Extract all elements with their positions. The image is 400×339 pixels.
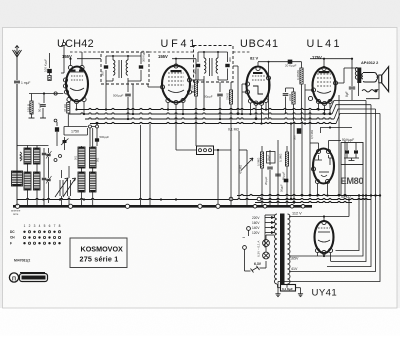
grid bracket UCH42 xyxy=(63,46,65,74)
svg-text:50μμF: 50μμF xyxy=(280,184,284,192)
wire 175V rail xyxy=(310,58,352,60)
wire drop cluster x310 xyxy=(309,110,311,196)
pin 5 UL41 right xyxy=(333,81,337,85)
capacitor bank b xyxy=(42,177,46,179)
pin UY41 top xyxy=(322,220,326,224)
svg-text:4: 4 xyxy=(39,224,41,228)
coil L7 xyxy=(78,172,85,192)
wire vol box left xyxy=(175,146,177,150)
wire tap rail xyxy=(264,218,266,233)
capacitor 500mmF osc xyxy=(95,138,99,141)
wire drop x339 xyxy=(338,95,340,196)
pin UL41 bottom a xyxy=(316,99,320,103)
dial lamp LP1 xyxy=(263,240,270,247)
pin 6 UF41 top xyxy=(174,64,178,68)
capacitor osc pad xyxy=(56,122,58,126)
pin EM80 top b xyxy=(326,149,330,153)
svg-text:82 V: 82 V xyxy=(250,56,259,61)
svg-text:AP4012 2: AP4012 2 xyxy=(361,60,379,65)
capacitor 2KuF box xyxy=(267,152,276,164)
wire UF41 grid left xyxy=(148,86,160,88)
wire lamp chain top xyxy=(265,235,267,240)
pin 6 UBC41 top xyxy=(256,66,260,70)
wire osc link xyxy=(92,126,96,128)
pin 7 UCH42 bottom left xyxy=(67,97,71,101)
svg-text:0,5MΩ: 0,5MΩ xyxy=(257,158,261,166)
wire UCH42 cathode down xyxy=(76,104,78,110)
pin UBC41 bottom a xyxy=(248,99,252,103)
coil L4 xyxy=(34,172,41,190)
node switch S1 xyxy=(54,92,57,95)
pin UBC41 bottom c xyxy=(259,101,263,105)
coil T2 primary xyxy=(204,58,206,73)
wire UF41 anode xyxy=(175,60,177,64)
svg-text:8: 8 xyxy=(59,224,61,228)
wire L corner mid xyxy=(321,128,353,134)
resistor 0.5Mohm vert xyxy=(261,146,263,152)
svg-text:0,5 MΩ: 0,5 MΩ xyxy=(310,130,314,139)
capacitor 100KmmF grid xyxy=(49,53,51,68)
svg-text:EM80: EM80 xyxy=(341,176,364,186)
switch S mains xyxy=(252,267,258,271)
svg-text:1 mμF: 1 mμF xyxy=(21,81,30,85)
mains plug P1 xyxy=(247,227,251,231)
wire 155V to IF1 xyxy=(77,58,101,60)
svg-text:6: 6 xyxy=(49,224,51,228)
wire volume feed xyxy=(176,146,196,150)
junction dots buses xyxy=(75,108,77,110)
coil L2 xyxy=(34,148,41,164)
node terminal bus d xyxy=(198,204,202,208)
wire drop x140 xyxy=(140,52,142,56)
bus B5 short xyxy=(63,126,65,128)
pin EM80 left xyxy=(311,167,315,171)
svg-text:275 série 1: 275 série 1 xyxy=(80,255,119,264)
coil L3 xyxy=(24,172,31,190)
wire antenna lead lower xyxy=(16,84,18,150)
node terminal bus f xyxy=(253,205,257,209)
svg-text:KOSMOVOX: KOSMOVOX xyxy=(81,245,124,254)
wire OT secondary to speaker xyxy=(377,76,380,78)
svg-text:F: F xyxy=(10,241,12,245)
svg-text:140V: 140V xyxy=(252,226,260,230)
capacitor 2KmmF xyxy=(269,150,271,165)
capacitor box EM80 xyxy=(341,143,363,165)
capacitor 1mmF antenna series xyxy=(14,80,20,82)
wire nest v3 xyxy=(331,101,366,262)
capacitor T1 primary xyxy=(105,56,107,64)
resistor 22Kohm det xyxy=(230,82,232,90)
wire antenna to coils xyxy=(16,84,18,206)
variable capacitor CV2 xyxy=(67,180,69,196)
wire coil tops xyxy=(17,145,49,147)
wire nest v4 xyxy=(327,105,371,267)
svg-text:160V: 160V xyxy=(252,221,260,225)
pin 6 UCH42 top right xyxy=(80,65,84,69)
svg-text:0,1 MΩ: 0,1 MΩ xyxy=(228,128,239,132)
resistor 0.47Mohm xyxy=(301,62,303,68)
wire coil bottoms to bus xyxy=(27,190,29,206)
capacitor 0.1KuF mains xyxy=(281,285,296,292)
svg-text:112 V: 112 V xyxy=(292,212,302,216)
capacitor 50mmF tone xyxy=(284,179,289,183)
svg-text:47 kΩ: 47 kΩ xyxy=(63,103,67,112)
svg-text:20 KμμF: 20 KμμF xyxy=(285,64,297,68)
coil L1 xyxy=(24,148,31,164)
bus B2 xyxy=(69,113,332,114)
svg-text:100 KμμF: 100 KμμF xyxy=(44,59,48,72)
pin UY41 bottom c xyxy=(328,248,332,252)
wire L7L8 to bus xyxy=(81,192,83,206)
pin UY41 bottom a xyxy=(315,248,319,252)
wire antenna lead xyxy=(16,56,18,80)
wire af node xyxy=(286,87,294,89)
tube EM80 xyxy=(313,149,334,184)
svg-text:175V: 175V xyxy=(312,55,322,60)
wire UBC41 pin5 up xyxy=(268,62,270,76)
pin 8 UF41 right b xyxy=(187,90,191,94)
svg-text:300: 300 xyxy=(228,57,232,62)
speaker LS1 xyxy=(379,75,382,83)
wire nest v6 outer xyxy=(278,114,380,282)
wire nest v2 xyxy=(289,196,363,257)
svg-text:6,3V: 6,3V xyxy=(254,262,262,266)
svg-text:50 μμF: 50 μμF xyxy=(38,102,42,112)
pin UL41 bottom c xyxy=(328,99,332,103)
node terminal bus c xyxy=(125,204,129,208)
resistor 1Mohm screen xyxy=(195,59,197,80)
wire drop cluster x302 xyxy=(301,121,303,196)
svg-text:6,3V – 0,1 A: 6,3V – 0,1 A xyxy=(257,241,261,257)
svg-text:M/47081(2: M/47081(2 xyxy=(14,259,30,263)
resistor 150 ohm xyxy=(31,94,33,102)
wire drop cluster x291 xyxy=(290,124,292,199)
tube UBC41 xyxy=(247,67,270,104)
logo roundel xyxy=(9,273,18,282)
capacitor T2 secondary xyxy=(227,52,229,62)
svg-text:~: ~ xyxy=(242,236,245,242)
bus B1 heater/avc xyxy=(77,108,330,109)
wire UL41 anode to OT xyxy=(336,82,345,84)
svg-text:UBC41: UBC41 xyxy=(240,38,279,50)
wire vol box right xyxy=(214,149,232,151)
wire speaker return xyxy=(366,83,379,99)
ant coil bracket xyxy=(20,152,22,161)
wire UL41 bottoms xyxy=(318,104,320,110)
svg-text:588: 588 xyxy=(20,181,24,186)
wire drop x247 xyxy=(246,150,248,206)
wire primary top to taps xyxy=(265,214,275,216)
power transformer TR1 secondary xyxy=(288,214,291,284)
power transformer TR1 core xyxy=(280,214,285,286)
wire nest v5 xyxy=(289,109,376,272)
svg-text:3: 3 xyxy=(34,224,36,228)
node terminal bus a xyxy=(15,204,19,208)
wire mains leads xyxy=(250,228,265,230)
svg-text:165V: 165V xyxy=(290,257,299,261)
output transformer OT primary xyxy=(357,68,361,84)
wire UBC41 anode up xyxy=(257,62,259,66)
volume control box xyxy=(197,146,214,155)
pin EM80 bottom b xyxy=(325,179,329,183)
svg-text:1: 1 xyxy=(24,224,26,228)
trimmer bank a xyxy=(48,148,50,153)
node terminal bus i xyxy=(301,205,305,209)
wire UBC41 bottoms xyxy=(250,103,252,114)
svg-text:500μμF: 500μμF xyxy=(100,135,110,139)
pin 4 UCH42 left c xyxy=(64,90,68,94)
capacitor coupling af xyxy=(285,88,287,92)
wire drop cluster x294 xyxy=(293,121,295,203)
wire switch to lamp chain xyxy=(244,254,246,271)
rail R1 xyxy=(237,194,380,195)
wire T2 top tie xyxy=(198,51,228,53)
tube UF41 xyxy=(162,66,190,103)
svg-text:150 Ω: 150 Ω xyxy=(27,103,31,112)
EM80 internals xyxy=(315,155,322,160)
tube UCH42 xyxy=(66,67,88,102)
wire gang to bus xyxy=(61,196,63,206)
node terminal bus b xyxy=(68,204,72,208)
pin 2 UCH42 top left xyxy=(68,65,72,69)
switch contact b xyxy=(59,155,62,158)
ground bus main xyxy=(13,205,312,208)
capacitor T2 primary xyxy=(197,52,199,62)
wire nest v1 xyxy=(336,196,360,251)
wire drop x278 xyxy=(277,140,279,206)
pin UL41 left low xyxy=(308,96,312,100)
wire drop x345 xyxy=(344,141,346,196)
pin 5 UBC41 right xyxy=(266,76,270,80)
svg-text:UY41: UY41 xyxy=(312,288,338,299)
node terminal bus h xyxy=(290,205,294,209)
padder box antenna xyxy=(12,171,23,186)
core T2 xyxy=(209,58,211,76)
svg-text:300: 300 xyxy=(101,71,105,76)
coil L6 xyxy=(90,147,97,168)
power transformer TR1 primary xyxy=(275,214,278,284)
svg-text:500μμF: 500μμF xyxy=(113,94,123,98)
capacitor bank a xyxy=(42,152,46,154)
coil T1 secondary xyxy=(126,60,128,75)
svg-text:2KμμF: 2KμμF xyxy=(264,176,268,185)
svg-text:300: 300 xyxy=(293,135,297,140)
coil 300KmmF blob xyxy=(297,128,301,134)
svg-text:50μμF: 50μμF xyxy=(204,95,213,99)
node terminal bus e xyxy=(216,204,220,208)
ground G1 xyxy=(277,292,279,294)
capacitor 20KmmF xyxy=(288,60,293,64)
svg-text:22KΩ: 22KΩ xyxy=(226,93,230,100)
wire drop x239 xyxy=(238,131,240,199)
wire HT secondary to UY41 xyxy=(289,216,349,218)
pin 2 UBC41 left b xyxy=(245,90,249,94)
wire L5L6 tops xyxy=(81,146,83,147)
pin EM80 top a xyxy=(316,149,320,153)
svg-text:terre: terre xyxy=(13,212,19,216)
pin 8 UCH42 bottom mid xyxy=(74,99,78,103)
wire UF41 bottoms xyxy=(167,103,169,110)
trimmer bank b xyxy=(48,172,50,178)
wire 82V line xyxy=(258,61,302,63)
bus B3 xyxy=(85,118,334,119)
tube UL41 xyxy=(313,68,336,104)
svg-text:Π: Π xyxy=(12,276,16,282)
coil L5 xyxy=(78,147,85,168)
wire cap to grounds xyxy=(277,282,279,293)
svg-text:1 MΩ: 1 MΩ xyxy=(191,84,195,92)
pin UBC41 bottom b xyxy=(254,101,258,105)
potentiometer wiper arrow xyxy=(241,158,253,171)
output transformer OT secondary loop xyxy=(365,73,377,76)
wire UL41 grid xyxy=(305,89,311,91)
wire T1 secondary down xyxy=(132,84,134,114)
svg-text:DC: DC xyxy=(10,230,15,234)
capacitor 50mmF agc xyxy=(43,94,45,104)
node pot terminal a xyxy=(229,197,233,201)
wire osc down a xyxy=(89,128,91,146)
node pot terminal b xyxy=(257,197,261,201)
pin 1 UBC41 left a xyxy=(245,82,249,86)
coil L8 xyxy=(90,172,97,192)
svg-text:155V: 155V xyxy=(158,54,168,59)
svg-text:22KΩ: 22KΩ xyxy=(288,94,292,101)
svg-text:501: 501 xyxy=(74,155,78,160)
svg-text:50 KμμF: 50 KμμF xyxy=(342,138,354,142)
pin 5 UF41 right a xyxy=(187,78,191,82)
title box KOSMOVOX 275 xyxy=(70,238,127,268)
pin 3 UL41 left xyxy=(311,88,315,92)
capacitor T1 secondary xyxy=(140,56,142,64)
node osc a xyxy=(89,125,92,128)
svg-text:0,1 KμF: 0,1 KμF xyxy=(282,287,293,291)
node grid top terminal xyxy=(62,42,65,45)
wire T2 bottom tie xyxy=(198,79,204,81)
wire UY41 anode xyxy=(323,217,325,221)
coil T1 primary xyxy=(113,60,115,75)
wire lamp chain bottom xyxy=(265,259,267,261)
resistor 47k ohm xyxy=(68,101,70,104)
pin 2 UL41 top xyxy=(322,66,326,70)
pin 1 UF41 left xyxy=(160,85,164,89)
pin 4 UF41 bottom c xyxy=(181,98,185,102)
svg-text:41V: 41V xyxy=(291,267,298,271)
wire UY41 cathode down xyxy=(323,255,325,256)
wire 155V UF41 feed xyxy=(172,58,196,60)
pin 7 UF41 bottom b xyxy=(174,100,178,104)
wire UCH42 grid top xyxy=(70,59,72,66)
rail R3 xyxy=(255,201,352,202)
shield rail dashed xyxy=(70,51,101,53)
core T1 xyxy=(118,60,120,78)
wire EM80 bottoms xyxy=(317,184,319,196)
coil T2 secondary xyxy=(216,58,218,73)
wire T1 primary down xyxy=(105,81,107,110)
switch contact a xyxy=(54,159,57,162)
wire UCH42 grid left xyxy=(29,93,63,95)
wire OT primary down xyxy=(358,83,360,96)
svg-text:5KμμF: 5KμμF xyxy=(282,171,286,180)
wire osc down b xyxy=(96,128,98,146)
dial lamp LP2 xyxy=(263,252,270,259)
wire UBC41 left leads xyxy=(242,83,245,85)
wire drop x150 xyxy=(149,124,151,206)
svg-text:8μF: 8μF xyxy=(345,91,349,97)
wire UY41 fil leads xyxy=(317,253,319,256)
IF transformer T2 shield box xyxy=(194,46,234,83)
svg-text:5: 5 xyxy=(44,224,46,228)
capacitor 8uF cathode xyxy=(351,59,353,86)
svg-text:1750: 1750 xyxy=(71,130,79,134)
svg-text:220V: 220V xyxy=(252,216,260,220)
pin UY41 bottom b xyxy=(322,250,326,254)
pin 5 UCH42 bottom right xyxy=(82,97,86,101)
logo band xyxy=(20,274,48,282)
svg-text:588: 588 xyxy=(20,155,24,160)
pin 1 UCH42 left a xyxy=(63,78,67,82)
svg-text:antenne: antenne xyxy=(11,209,21,213)
pin UL41 bottom b xyxy=(322,101,326,105)
pin UBC41 bottom d xyxy=(264,98,268,102)
wire EM80 box sides down xyxy=(340,165,342,196)
antenna A1 xyxy=(16,46,18,56)
ground G2 xyxy=(300,292,302,294)
wire transformer bottom xyxy=(277,284,279,288)
node osc b xyxy=(96,125,99,128)
svg-text:300 KμμF: 300 KμμF xyxy=(142,50,146,62)
svg-text:2: 2 xyxy=(29,224,31,228)
wire T1 top tie xyxy=(106,55,141,57)
trimmer osc xyxy=(64,137,66,140)
wire UL41 anode up xyxy=(323,59,325,67)
svg-text:0,1MΩ: 0,1MΩ xyxy=(279,154,283,162)
svg-text:UL41: UL41 xyxy=(307,38,342,50)
svg-text:501: 501 xyxy=(96,157,100,162)
svg-text:300: 300 xyxy=(193,69,197,74)
pin 2 UF41 bottom a xyxy=(166,98,170,102)
variable capacitor CV1 xyxy=(59,180,61,196)
svg-text:7: 7 xyxy=(54,224,56,228)
voice coil lead squiggle xyxy=(362,90,377,92)
wire T1 bottom tie xyxy=(106,80,113,82)
pin 3 UCH42 left b xyxy=(63,84,67,88)
svg-text:0,47MΩ: 0,47MΩ xyxy=(296,70,300,80)
tube UY41 xyxy=(315,221,334,253)
resistor drop x287 xyxy=(286,146,288,152)
svg-text:UF41: UF41 xyxy=(161,38,199,50)
wire UF41 right pins xyxy=(192,79,196,81)
wire EM80 top feeds xyxy=(318,143,320,149)
wire coil bottoms row1 xyxy=(27,164,29,172)
bus B4 xyxy=(90,122,336,123)
wire T2 primary down xyxy=(203,80,205,110)
wire drop x231 pot xyxy=(230,146,232,206)
resistor 22Kohm af xyxy=(293,90,295,92)
wire L5L6 bottoms xyxy=(81,168,83,172)
IF transformer T1 shield box xyxy=(101,52,149,84)
wire drop x218 xyxy=(217,150,219,204)
wire HT up to rail xyxy=(348,199,350,217)
svg-text:CH: CH xyxy=(10,236,15,240)
wire UCH42 pin5 down xyxy=(83,102,85,114)
pin EM80 bottom a xyxy=(315,179,319,183)
wire T2 right xyxy=(237,66,239,114)
rail R2 xyxy=(17,198,371,199)
node terminal bus g xyxy=(263,205,267,209)
svg-text:120V: 120V xyxy=(252,231,260,235)
